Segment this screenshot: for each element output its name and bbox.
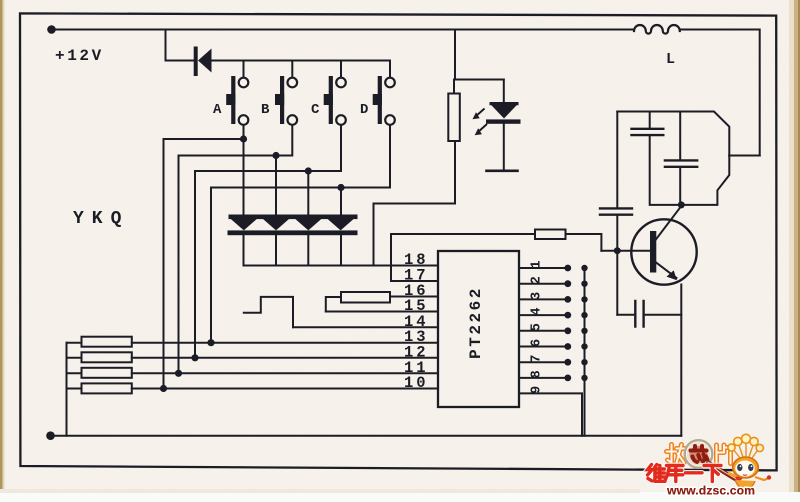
svg-text:6: 6 [530, 339, 545, 347]
svg-text:8: 8 [530, 370, 545, 378]
svg-text:D: D [360, 102, 368, 118]
svg-text:4: 4 [530, 307, 545, 315]
svg-text:1: 1 [530, 260, 545, 268]
svg-text:C: C [311, 102, 320, 118]
svg-text:YKQ: YKQ [73, 209, 129, 229]
svg-text:www.dzsc.com: www.dzsc.com [666, 484, 755, 498]
svg-text:2: 2 [530, 276, 545, 284]
svg-text:3: 3 [530, 292, 545, 300]
svg-text:10: 10 [404, 374, 429, 392]
svg-text:L: L [666, 51, 675, 68]
svg-text:5: 5 [530, 323, 545, 331]
svg-text:+12V: +12V [55, 47, 104, 65]
svg-text:9: 9 [530, 386, 545, 394]
svg-text:7: 7 [530, 355, 545, 363]
svg-text:A: A [213, 102, 222, 118]
svg-text:PT2262: PT2262 [467, 286, 485, 359]
svg-text:B: B [261, 102, 270, 118]
